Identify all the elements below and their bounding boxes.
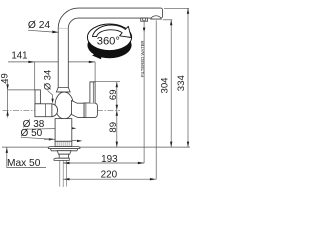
dim 141 arrows [28, 61, 34, 63]
svg-text:141: 141 [11, 50, 27, 61]
svg-text:Max 50: Max 50 [7, 158, 41, 169]
bottom bracket [54, 158, 69, 160]
dim 220 ext [155, 21, 157, 180]
knurled ring [55, 141, 72, 146]
dim 49 line [8, 79, 41, 118]
right knob block [84, 103, 97, 118]
left knob [35, 104, 52, 117]
body ball [55, 92, 73, 119]
dim 89 arrows [116, 110, 118, 116]
svg-text:193: 193 [101, 154, 118, 165]
counter top line [2, 146, 190, 148]
filtered water nozzle [141, 18, 148, 21]
body collar [56, 88, 70, 92]
mounting nut [57, 151, 71, 155]
swirl arrow white band [93, 25, 132, 38]
dim 49 arrows [6, 84, 8, 90]
dim 141 line [8, 62, 95, 90]
centerline handles y=110.3 [3, 109, 121, 111]
dim 304 [163, 20, 173, 147]
dim Max 50 [6, 148, 8, 168]
left knob tab [35, 90, 40, 104]
black bottom-left arrow [92, 51, 102, 60]
right adapter to knob [72, 101, 85, 118]
spout outlet dome [151, 16, 162, 19]
svg-text:FILTERED WATER: FILTERED WATER [140, 40, 145, 77]
pipe joint line [59, 27, 69, 29]
svg-text:69: 69 [108, 89, 119, 100]
svg-text:89: 89 [108, 122, 119, 133]
dim 69 arrows [116, 82, 118, 88]
spout pipe (riser + bend + horizontal run) [58, 8, 162, 92]
svg-text:334: 334 [176, 75, 187, 92]
shank [59, 154, 68, 158]
svg-text:Ø 34: Ø 34 [42, 70, 53, 90]
dim 334 [164, 8, 189, 147]
dim 69/89 column [90, 82, 120, 147]
axis line below base [62, 146, 64, 187]
dim 193 [63, 162, 144, 164]
svg-text:49: 49 [0, 73, 9, 83]
supply hoses [60, 160, 67, 186]
360 symbol [87, 24, 131, 59]
flange plate [48, 147, 80, 149]
svg-text:Ø 24: Ø 24 [28, 20, 51, 31]
base column [55, 119, 72, 142]
svg-text:220: 220 [101, 169, 118, 180]
svg-text:360°: 360° [97, 35, 120, 47]
filtered water leader line [143, 21, 145, 163]
dim 220 [63, 178, 156, 180]
svg-text:304: 304 [159, 77, 170, 94]
left knob cap [52, 104, 58, 117]
right lever [90, 82, 95, 103]
